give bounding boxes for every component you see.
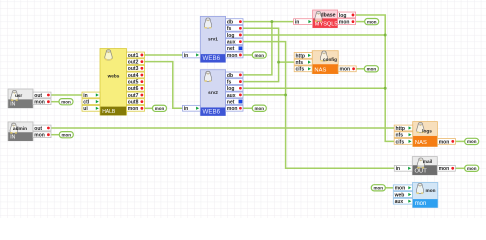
svg-text:usr: usr — [15, 93, 22, 98]
svg-text:mon: mon — [255, 53, 265, 58]
probe mon of webs — [153, 105, 167, 111]
database dbase (MYSQL5) — [294, 10, 356, 28]
svg-text:mon: mon — [426, 188, 436, 193]
svg-text:web: web — [394, 192, 405, 198]
svg-text:out3: out3 — [128, 66, 139, 72]
svg-text:mon: mon — [367, 19, 377, 24]
svg-text:nfs: nfs — [396, 133, 404, 139]
web server srv1 (WEB6) — [183, 16, 244, 62]
wire webs.out2 to srv2.in — [143, 62, 183, 109]
svg-text:NAS: NAS — [314, 67, 326, 73]
svg-text:mon: mon — [367, 67, 377, 72]
probe mon of logs — [465, 138, 479, 144]
junction db net — [270, 20, 273, 23]
probe mon of srv2 — [252, 105, 266, 111]
junction log net srv2 — [384, 87, 387, 90]
svg-text:mon: mon — [339, 20, 350, 26]
NAS logs — [394, 122, 455, 147]
wire srv2.fs to fs net — [241, 62, 279, 81]
svg-text:mon: mon — [34, 100, 45, 106]
svg-text:WEB6: WEB6 — [203, 108, 221, 115]
server admin (IN) — [8, 122, 51, 141]
svg-text:cifs: cifs — [296, 67, 305, 73]
svg-text:out1: out1 — [128, 53, 139, 59]
svg-text:log: log — [227, 86, 235, 92]
svg-text:out: out — [34, 126, 42, 132]
svg-text:srv2: srv2 — [208, 90, 218, 95]
wire srv1.aux to mail.in — [241, 42, 394, 169]
svg-text:aux: aux — [227, 40, 236, 46]
wire webs.mon to mon probe — [143, 107, 153, 109]
svg-text:mon: mon — [155, 106, 165, 111]
wire admin.out to logs.http — [49, 127, 394, 129]
svg-text:mon: mon — [374, 186, 384, 191]
svg-text:dbase: dbase — [321, 13, 336, 19]
svg-text:in: in — [184, 53, 188, 59]
svg-text:out7: out7 — [128, 93, 139, 99]
wire logs.mon to mon probe — [453, 140, 464, 142]
svg-text:mon: mon — [128, 106, 139, 112]
wire config.mon to mon probe — [354, 68, 364, 70]
probe mon feeding monitor — [371, 185, 385, 191]
svg-text:mon: mon — [227, 53, 238, 59]
probe mon of admin — [59, 132, 73, 138]
wire srv2.mon to mon probe — [241, 107, 252, 109]
svg-text:out2: out2 — [128, 60, 139, 66]
svg-text:in: in — [184, 106, 188, 112]
svg-text:http: http — [296, 53, 305, 59]
svg-text:HALB: HALB — [102, 109, 116, 115]
wire usr.out to webs.in — [49, 94, 82, 96]
svg-text:MYSQL5: MYSQL5 — [315, 21, 338, 27]
svg-text:OUT: OUT — [415, 169, 428, 175]
svg-text:fs: fs — [227, 26, 232, 32]
svg-text:logs: logs — [422, 129, 432, 134]
svg-text:out5: out5 — [128, 80, 139, 86]
junction aux net srv2 — [284, 93, 287, 96]
server usr (IN) — [8, 89, 51, 108]
svg-text:out4: out4 — [128, 73, 139, 79]
junction fs net at config.nfs — [277, 61, 280, 64]
svg-text:aux: aux — [395, 199, 404, 205]
svg-text:webs: webs — [107, 74, 120, 79]
probe mon of config — [364, 66, 378, 72]
wire srv1.fs to fs net — [241, 28, 279, 62]
wire admin.mon to mon probe — [49, 134, 59, 136]
svg-text:mon: mon — [467, 166, 477, 171]
junction log net srv1 — [384, 34, 387, 37]
svg-text:in: in — [295, 20, 299, 26]
probe mon of srv1 — [252, 52, 266, 58]
wire srv1.db to dbase.in — [241, 21, 294, 23]
svg-text:mon: mon — [34, 133, 45, 139]
svg-text:net: net — [227, 46, 235, 52]
wire srv1.mon to mon probe — [241, 54, 252, 56]
svg-text:db: db — [227, 73, 233, 79]
wire srv1.log to log net — [241, 34, 385, 36]
NAS config — [294, 51, 356, 74]
wire dbase.mon to mon probe — [354, 21, 365, 23]
svg-text:IN: IN — [10, 102, 15, 108]
svg-text:ui: ui — [83, 106, 88, 112]
svg-text:srv1: srv1 — [208, 37, 218, 42]
wire mon probe to mon.mon — [385, 187, 393, 189]
svg-text:IN: IN — [10, 135, 15, 141]
svg-text:db: db — [227, 20, 233, 26]
svg-text:mon: mon — [62, 133, 72, 138]
load balancer webs (HALB) — [82, 49, 145, 116]
probe mon of dbase — [365, 19, 379, 25]
svg-text:mon: mon — [340, 67, 351, 73]
svg-text:net: net — [227, 99, 235, 105]
mail relay (OUT) — [394, 157, 455, 175]
svg-text:mon: mon — [439, 166, 450, 172]
svg-text:nfs: nfs — [296, 60, 304, 66]
svg-text:cifs: cifs — [396, 139, 405, 145]
svg-text:mon: mon — [415, 201, 427, 207]
wire srv2.aux to aux net — [241, 94, 286, 96]
svg-text:config: config — [323, 57, 337, 62]
svg-text:mon: mon — [395, 186, 406, 192]
wire fs net to config.nfs — [279, 61, 295, 63]
wire usr.mon to mon probe — [49, 101, 59, 103]
wire srv2.log to log net — [241, 87, 385, 89]
svg-text:mon: mon — [439, 139, 450, 145]
monitor mon — [393, 183, 438, 208]
svg-text:mon: mon — [61, 100, 71, 105]
svg-text:in: in — [83, 93, 87, 99]
svg-text:out6: out6 — [128, 86, 139, 92]
svg-text:mon: mon — [255, 106, 265, 111]
svg-text:mon: mon — [227, 106, 238, 112]
svg-text:mon: mon — [467, 139, 477, 144]
svg-text:in: in — [396, 166, 400, 172]
svg-text:out8: out8 — [128, 100, 139, 106]
web server srv2 (WEB6) — [183, 70, 244, 116]
wire mail.mon to mon probe — [453, 167, 464, 169]
svg-text:http: http — [396, 126, 405, 132]
svg-text:WEB6: WEB6 — [203, 55, 221, 62]
wire webs.out1 to srv1.in — [143, 54, 183, 56]
svg-text:fs: fs — [227, 79, 232, 85]
svg-text:out: out — [34, 93, 42, 99]
probe mon of usr — [59, 99, 73, 105]
svg-text:mail: mail — [423, 159, 432, 164]
probe mon of mail — [465, 165, 479, 171]
svg-text:log: log — [227, 33, 235, 39]
svg-text:aux: aux — [227, 93, 236, 99]
svg-text:NAS: NAS — [415, 140, 427, 146]
svg-text:admin: admin — [13, 126, 27, 132]
svg-text:ctl: ctl — [83, 100, 89, 106]
svg-text:log: log — [339, 13, 347, 19]
wire dbase.log to logs.cifs — [354, 15, 395, 141]
wire srv2.db to db net — [241, 22, 272, 75]
